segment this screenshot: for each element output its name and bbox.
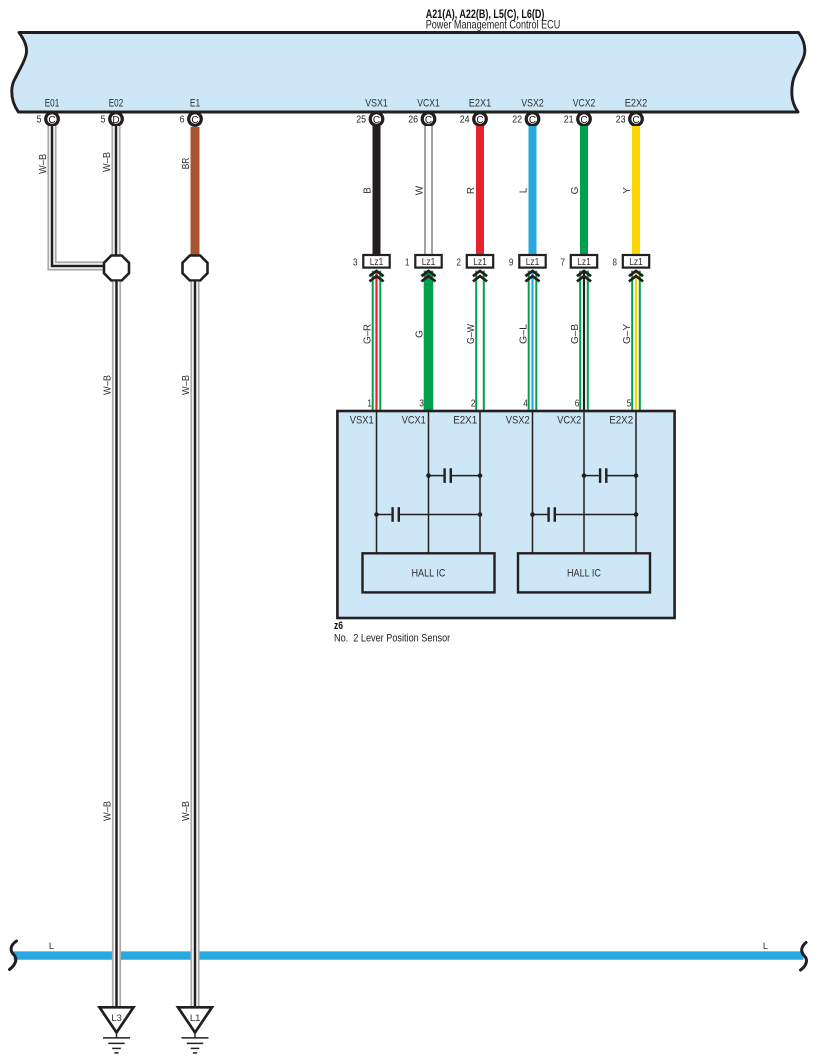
svg-text:23: 23 [616, 115, 626, 126]
ECU pin E2X2 23(C) [616, 98, 648, 126]
shield chevrons at Lz1 E2X1 [473, 271, 487, 282]
svg-text:22: 22 [512, 115, 522, 126]
svg-text:Lz1: Lz1 [526, 257, 540, 268]
svg-text:L3: L3 [111, 1013, 122, 1023]
svg-text:6: 6 [575, 397, 580, 409]
svg-text:9: 9 [509, 257, 514, 269]
ECU pin E1 6(C) [180, 98, 202, 126]
svg-text:C: C [476, 115, 483, 126]
shield chevrons at Lz1 VCX2 [577, 271, 591, 282]
wire G-Y from Lz1 to sensor pin 5 [622, 271, 636, 411]
svg-text:HALL IC: HALL IC [567, 567, 601, 579]
splice J2 [183, 256, 208, 281]
ECU pin VSX2 22(C) [512, 98, 544, 126]
svg-text:1: 1 [405, 257, 410, 269]
ECU title text [426, 8, 561, 31]
ground L3 [100, 1007, 134, 1053]
connector Lz1 pin 1 (VCX1) [405, 255, 442, 269]
svg-text:25: 25 [356, 115, 366, 126]
internal wire VCX2 [583, 411, 585, 554]
svg-text:Lz1: Lz1 [370, 257, 384, 268]
wire W from ECU VCX1 to connector Lz1 [415, 126, 429, 255]
wire BR from E1 to splice J2 [191, 127, 200, 256]
svg-text:C: C [373, 115, 380, 126]
svg-text:5: 5 [627, 397, 632, 409]
svg-text:C: C [632, 115, 639, 126]
svg-text:4: 4 [523, 397, 528, 409]
svg-text:L: L [49, 941, 54, 951]
wire W-B (J2-L1) [190, 282, 199, 1008]
svg-text:HALL IC: HALL IC [412, 567, 446, 579]
svg-text:VCX1: VCX1 [402, 414, 426, 426]
svg-text:G–W: G–W [466, 324, 477, 344]
wire W-B (E01) [52, 126, 104, 266]
svg-text:E2X1: E2X1 [469, 98, 492, 110]
svg-text:7: 7 [560, 257, 565, 269]
internal wire VSX1 [376, 411, 378, 554]
wire G from ECU VCX2 to connector Lz1 [570, 126, 584, 255]
svg-text:G: G [415, 330, 426, 338]
svg-text:1: 1 [367, 397, 372, 409]
HALL IC U1 [363, 553, 495, 592]
svg-text:Y: Y [622, 187, 633, 194]
svg-text:L1: L1 [190, 1013, 201, 1023]
capacitor C2 [374, 507, 482, 522]
svg-text:E2X2: E2X2 [625, 98, 648, 110]
svg-text:Lz1: Lz1 [577, 257, 591, 268]
svg-text:VSX1: VSX1 [365, 98, 388, 110]
torn end right [801, 943, 807, 971]
capacitor C3 [582, 468, 639, 483]
svg-text:C: C [529, 115, 536, 126]
svg-text:VSX2: VSX2 [521, 98, 544, 110]
ECU block A21(A), A22(B), L5(C), L6(D) Power Management Control ECU [12, 33, 805, 113]
svg-text:D: D [112, 115, 119, 126]
svg-text:E1: E1 [190, 98, 200, 110]
svg-text:3: 3 [353, 257, 358, 269]
capacitor C4 [530, 507, 638, 522]
svg-text:2: 2 [471, 397, 476, 409]
svg-text:21: 21 [564, 115, 574, 126]
svg-text:C: C [191, 115, 198, 126]
connector Lz1 pin 3 (VSX1) [353, 255, 390, 269]
splice J1 [104, 256, 129, 281]
svg-text:W–B: W–B [38, 154, 49, 174]
svg-text:6: 6 [180, 115, 185, 126]
svg-text:VCX2: VCX2 [557, 414, 581, 426]
ECU pin VSX1 25(C) [356, 98, 388, 126]
svg-text:L: L [763, 941, 768, 951]
svg-text:Lz1: Lz1 [629, 257, 643, 268]
svg-text:G: G [570, 186, 581, 194]
connector Lz1 pin 7 (VCX2) [560, 255, 597, 269]
svg-text:C: C [48, 115, 55, 126]
svg-text:W–B: W–B [103, 375, 114, 395]
svg-text:VCX2: VCX2 [573, 98, 596, 110]
shield chevrons at Lz1 E2X2 [629, 271, 643, 282]
wire G-R from Lz1 to sensor pin 1 [363, 271, 377, 411]
svg-text:BR: BR [181, 158, 192, 170]
torn end left [10, 941, 17, 970]
svg-text:E02: E02 [109, 98, 124, 110]
svg-text:24: 24 [460, 115, 470, 126]
svg-text:E2X1: E2X1 [453, 414, 477, 426]
svg-text:W: W [415, 185, 426, 195]
wire Y from ECU E2X2 to connector Lz1 [622, 126, 636, 255]
wire G-W from Lz1 to sensor pin 2 [466, 271, 480, 411]
connector Lz1 pin 2 (E2X1) [456, 255, 493, 269]
internal wire VSX2 [532, 411, 534, 554]
ECU pin VCX2 21(C) [564, 98, 596, 126]
wire G-L from Lz1 to sensor pin 4 [519, 271, 533, 411]
ground L1 [178, 1007, 212, 1053]
svg-text:R: R [466, 187, 477, 194]
svg-text:E2X2: E2X2 [609, 414, 633, 426]
wire W-B (E02) [111, 126, 120, 256]
sensor z6 No.2 Lever Position Sensor box [337, 411, 674, 618]
svg-text:E01: E01 [45, 98, 60, 110]
svg-text:G–B: G–B [570, 324, 581, 344]
svg-text:VCX1: VCX1 [417, 98, 440, 110]
wire W-B (J1-L3) [112, 282, 121, 1008]
svg-text:VSX1: VSX1 [350, 414, 374, 426]
svg-text:L: L [519, 187, 530, 193]
svg-text:5: 5 [37, 115, 42, 126]
svg-text:No. 2 Lever Position Sensor: No. 2 Lever Position Sensor [334, 632, 450, 644]
internal wire E2X1 [479, 411, 481, 554]
capacitor C1 [426, 468, 482, 483]
wire G from Lz1 to sensor pin 3 [415, 271, 429, 411]
wire L (blue bus) [14, 951, 804, 959]
svg-text:W–B: W–B [102, 152, 113, 172]
ECU pin E2X1 24(C) [460, 98, 492, 126]
ECU pin E02 5(D) [101, 98, 124, 126]
shield chevrons at Lz1 VSX2 [525, 271, 539, 282]
svg-text:26: 26 [408, 115, 418, 126]
ECU pin VCX1 26(C) [408, 98, 440, 126]
svg-text:W–B: W–B [181, 375, 192, 395]
wire B from ECU VSX1 to connector Lz1 [363, 126, 377, 255]
svg-text:B: B [363, 187, 374, 194]
svg-text:C: C [580, 115, 587, 126]
svg-text:VSX2: VSX2 [506, 414, 530, 426]
shield chevrons at Lz1 VSX1 [369, 271, 383, 282]
connector Lz1 pin 8 (E2X2) [612, 255, 649, 269]
ECU pin E01 5(C) [37, 98, 60, 126]
svg-text:5: 5 [101, 115, 106, 126]
svg-text:W–B: W–B [103, 801, 114, 821]
svg-text:8: 8 [612, 257, 617, 269]
svg-text:Power Management Control ECU: Power Management Control ECU [426, 18, 561, 31]
HALL IC U2 [518, 553, 650, 592]
svg-text:2: 2 [456, 257, 461, 269]
svg-text:G–L: G–L [519, 324, 530, 344]
wire G-B from Lz1 to sensor pin 6 [570, 271, 584, 411]
svg-text:Lz1: Lz1 [473, 257, 487, 268]
connector Lz1 pin 9 (VSX2) [509, 255, 546, 269]
wire R from ECU E2X1 to connector Lz1 [466, 126, 480, 255]
shield chevrons at Lz1 VCX1 [421, 271, 435, 282]
svg-text:3: 3 [419, 397, 424, 409]
svg-text:Lz1: Lz1 [422, 257, 436, 268]
svg-text:z6: z6 [334, 620, 343, 632]
svg-text:G–R: G–R [363, 324, 374, 344]
internal wire VCX1 [428, 411, 430, 554]
svg-text:W–B: W–B [181, 801, 192, 821]
svg-text:C: C [425, 115, 432, 126]
wire L from ECU VSX2 to connector Lz1 [519, 126, 533, 255]
internal wire E2X2 [635, 411, 637, 554]
svg-text:G–Y: G–Y [622, 324, 633, 344]
